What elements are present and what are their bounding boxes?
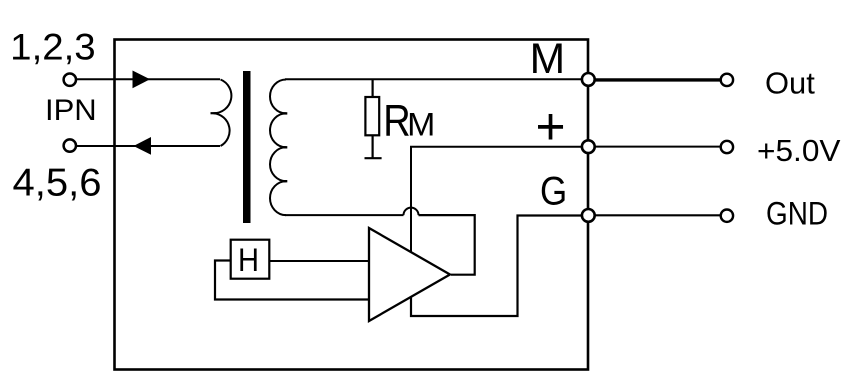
wire Out <box>595 78 721 81</box>
resistor RM bottom lead <box>372 136 374 158</box>
wire G net to amplifier ground <box>411 216 588 317</box>
terminal 4,5,6 <box>64 139 76 151</box>
svg-text:GND: GND <box>766 196 828 232</box>
wire primary out <box>75 145 220 147</box>
wire GND <box>595 214 720 216</box>
wire secondary bottom to crossover <box>285 214 404 216</box>
svg-text:H: H <box>238 242 259 278</box>
terminal + <box>582 140 595 153</box>
resistor RM top lead <box>372 79 374 97</box>
svg-text:1,2,3: 1,2,3 <box>10 26 96 68</box>
svg-text:G: G <box>540 169 567 213</box>
hall element H <box>231 240 270 279</box>
primary winding cusp tick <box>211 112 217 114</box>
primary winding P1 <box>214 80 232 147</box>
wire M rail (secondary top to M terminal) <box>285 78 588 80</box>
terminal G <box>582 209 595 222</box>
arrow current out <box>134 137 152 155</box>
wire crossover to corner <box>419 215 475 275</box>
op-amp A1 <box>369 228 450 321</box>
wire primary in <box>76 78 220 80</box>
secondary winding cusp ticks <box>282 113 288 181</box>
terminal 1,2,3 <box>64 74 76 86</box>
svg-text:Out: Out <box>765 66 815 100</box>
wire hall to amp lower input <box>215 261 370 300</box>
arrow current in <box>133 71 151 89</box>
wire +5V rail to amplifier <box>411 147 588 252</box>
svg-text:M: M <box>530 35 566 82</box>
magnetic core <box>243 71 251 223</box>
svg-text:IPN: IPN <box>45 94 97 127</box>
label RM <box>383 97 435 146</box>
external terminal GND <box>721 210 733 222</box>
resistor RM end bar <box>365 157 382 159</box>
wire hop crossover <box>404 208 419 215</box>
wire hall to amp upper input <box>270 260 370 262</box>
resistor RM <box>365 97 379 135</box>
transducer case box <box>115 40 589 370</box>
wire +5.0V <box>595 146 720 148</box>
svg-text:4,5,6: 4,5,6 <box>13 162 102 205</box>
svg-text:M: M <box>407 106 435 142</box>
svg-text:+5.0V: +5.0V <box>757 133 841 168</box>
external terminal Out <box>721 74 733 86</box>
terminal M <box>582 73 595 86</box>
secondary winding S1 <box>270 80 286 216</box>
external terminal +5.0V <box>721 141 733 153</box>
